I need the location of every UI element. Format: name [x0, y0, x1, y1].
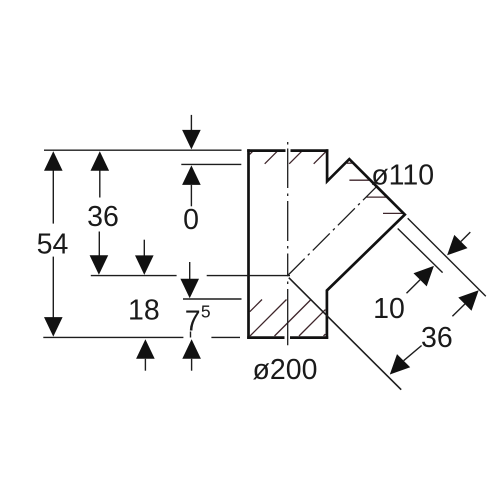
- svg-text:ø200: ø200: [253, 354, 318, 386]
- mid reference line: [91, 275, 290, 277]
- dim 36 top arrow: [91, 151, 110, 171]
- dim 7-5 top arrow tail: [189, 262, 191, 279]
- diagonal end face extension line: [408, 218, 486, 296]
- body outline: [247, 149, 405, 339]
- dim 36r upper arrow tail: [452, 304, 465, 316]
- dim 36r lower arrow tail: [404, 346, 422, 361]
- dim 10 lower arrow: [414, 266, 434, 287]
- thin reference lines: [43, 150, 290, 337]
- svg-text:10: 10: [373, 293, 405, 325]
- notch and branch outline: [327, 149, 405, 339]
- svg-text:5: 5: [201, 302, 211, 322]
- dim 18 top arrow: [135, 255, 154, 275]
- svg-text:36: 36: [421, 322, 453, 354]
- dim 36r upper arrow: [458, 290, 478, 311]
- dim 7-5 bottom arrow: [182, 339, 201, 359]
- dim 18 bottom arrow tail: [144, 359, 146, 371]
- dim 54 line: [52, 170, 54, 318]
- svg-text:ø110: ø110: [371, 159, 434, 191]
- svg-text:36: 36: [87, 201, 119, 233]
- dim 0 bottom arrow: [182, 165, 201, 185]
- hatch branch wall horizontal ticks: [347, 163, 404, 213]
- dim 36 bottom arrow: [90, 255, 109, 274]
- branch centerline: [288, 187, 377, 276]
- svg-text:54: 54: [37, 228, 69, 260]
- dim 0 top arrow tail: [190, 115, 192, 131]
- dim 36r lower arrow: [390, 354, 410, 374]
- dim 18 bottom arrow: [136, 339, 155, 359]
- svg-text:0: 0: [183, 204, 199, 236]
- dim 18 top arrow tail: [143, 240, 145, 256]
- body bottom edge: [247, 336, 328, 339]
- dim 0 top arrow: [182, 130, 201, 150]
- dim 10 upper arrow tail: [461, 232, 470, 241]
- hatch bottom band: [250, 300, 326, 337]
- zero reference line: [181, 163, 241, 165]
- dim 7-5 top arrow: [180, 279, 199, 299]
- svg-text:18: 18: [128, 295, 160, 327]
- dim 0 bottom arrow tail: [190, 185, 192, 206]
- dim 7-5 bottom arrow tail: [191, 359, 193, 371]
- hatch top band: [250, 151, 327, 164]
- dim 36 line: [98, 170, 101, 256]
- top reference line: [44, 149, 242, 151]
- diagonal inner extension line: [398, 229, 443, 273]
- body left edge: [247, 149, 250, 339]
- body top edge: [247, 149, 328, 152]
- dim 7-5 mid segment: [190, 332, 192, 338]
- svg-text:7: 7: [185, 306, 201, 338]
- diagonal extension line A: [289, 278, 401, 390]
- bottom reference line: [43, 336, 240, 338]
- dim 54 top arrow: [44, 151, 63, 171]
- dim 54 bottom arrow: [44, 317, 63, 337]
- vertical centerline: [287, 142, 289, 345]
- seven-five reference line: [183, 298, 242, 300]
- dim 10 upper arrow: [447, 235, 467, 255]
- dim 10 lower arrow tail: [407, 280, 421, 294]
